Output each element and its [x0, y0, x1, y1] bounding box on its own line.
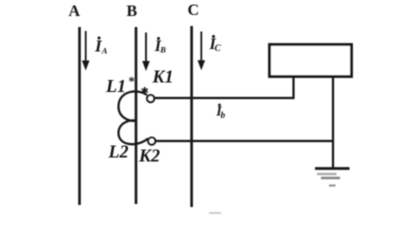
svg-text:A: A [101, 46, 108, 56]
svg-text:L2: L2 [108, 142, 129, 162]
svg-text:B: B [159, 45, 166, 55]
svg-text:C: C [188, 2, 200, 19]
svg-text:K2: K2 [138, 146, 160, 166]
svg-text:L1: L1 [105, 76, 126, 96]
svg-text:B: B [127, 3, 138, 20]
svg-text:C: C [215, 43, 222, 53]
svg-text:A: A [69, 3, 81, 20]
svg-text:*: * [129, 75, 135, 89]
svg-text:b: b [221, 110, 226, 120]
svg-text:K1: K1 [152, 67, 174, 87]
